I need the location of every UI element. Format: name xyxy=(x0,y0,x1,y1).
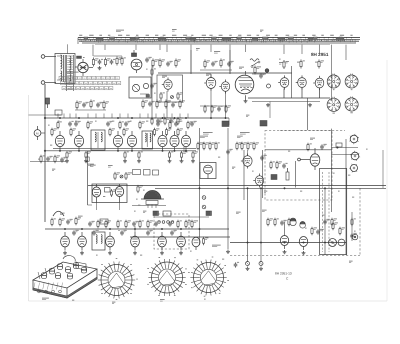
vertical x247 xyxy=(247,195,249,262)
cap V19 xyxy=(320,144,327,149)
tube V3 xyxy=(162,78,172,92)
tube V29 xyxy=(280,236,288,250)
coil hump L2 xyxy=(53,211,64,216)
res cluster bottom right 2 xyxy=(311,227,324,236)
grid resistor V12 xyxy=(109,128,115,137)
output box xyxy=(92,184,127,203)
resistor R10 xyxy=(156,100,162,109)
wire right tubes xyxy=(284,88,320,98)
dashed vertical det1 xyxy=(322,172,324,252)
ground G1 xyxy=(98,66,102,70)
trimmer T204b xyxy=(202,205,206,209)
shield box V16 xyxy=(200,163,216,179)
wire drop x284 xyxy=(284,222,286,236)
res R41 xyxy=(351,218,356,226)
cap right extra xyxy=(350,233,357,238)
wire x307 v19 xyxy=(307,98,309,130)
ground x228 xyxy=(226,250,230,254)
antenna transformer T1 xyxy=(55,54,75,84)
res R30 xyxy=(97,220,103,229)
bus y229 xyxy=(45,228,229,230)
cathode resistor V14 xyxy=(168,151,173,159)
half-dark rotor1 xyxy=(290,218,296,226)
bus y98 xyxy=(248,97,330,99)
socket SK1 xyxy=(327,74,340,90)
component ticks row1 xyxy=(58,114,188,119)
cathode resistor V11 xyxy=(85,151,91,159)
cathode resistor V12 xyxy=(124,151,129,159)
cable dark blocks xyxy=(96,37,344,40)
tube V28 xyxy=(177,232,186,251)
labels bottom row xyxy=(58,229,178,231)
legend row 1 xyxy=(59,76,119,79)
wire terminal A2 to transformer xyxy=(45,82,56,84)
tube V8 xyxy=(296,75,307,89)
wire x295 down xyxy=(295,161,297,188)
cable text labels xyxy=(79,35,352,39)
wire drop x247 xyxy=(247,188,249,195)
labels scatter row2 xyxy=(218,151,302,193)
spider tip labels L4 xyxy=(147,258,187,296)
shield enclosure V3 xyxy=(157,75,183,102)
label V1 xyxy=(77,56,85,59)
magic eye base xyxy=(146,201,158,209)
dark component D2 xyxy=(260,121,267,127)
capacitor C9 xyxy=(211,61,218,66)
IF transformer T3 xyxy=(142,131,153,149)
resistor R3 xyxy=(116,57,122,66)
capacitor C8 xyxy=(166,61,173,66)
labels row1 xyxy=(58,120,182,122)
terminal A2 xyxy=(41,81,45,85)
vertical x87 xyxy=(87,151,89,205)
spider coil L5 xyxy=(190,260,226,296)
wire T1 to V1 xyxy=(75,66,77,68)
wire x135 drop xyxy=(134,226,136,232)
cable harness bus xyxy=(78,38,360,45)
dial lamp box xyxy=(129,77,151,98)
legend row 3 xyxy=(62,87,113,90)
left cluster below bus xyxy=(30,155,94,166)
IF transformer T4 xyxy=(92,232,105,250)
dark component D4 xyxy=(153,211,159,216)
res R40 xyxy=(331,218,337,227)
res V19 xyxy=(307,143,312,152)
tube V25 xyxy=(106,232,115,251)
dashed bottom right xyxy=(230,255,360,257)
tube V7 xyxy=(278,75,289,89)
capacitor C4 xyxy=(82,102,89,107)
ground under V10 xyxy=(65,159,69,163)
tube V2 blob xyxy=(132,50,137,57)
meter M1 xyxy=(34,126,45,140)
vertical bus x45 xyxy=(44,84,46,222)
trimmer TR1 xyxy=(246,262,250,266)
res bottom right of row xyxy=(202,237,208,245)
cathode resistor V10 xyxy=(66,151,72,159)
bus y237 xyxy=(130,236,230,238)
page edge left xyxy=(28,95,30,301)
vertical x261 xyxy=(260,195,262,262)
ground under V15 xyxy=(180,159,184,163)
tube V9 xyxy=(313,76,324,90)
label V3 xyxy=(162,75,167,77)
tube V17 xyxy=(241,154,252,169)
tube V35 xyxy=(352,234,358,240)
dark component D3 xyxy=(271,175,277,180)
wire tube V5 down xyxy=(225,92,227,119)
components left of V7 xyxy=(252,66,266,79)
ground under V23 xyxy=(63,251,67,255)
ground under V12 xyxy=(123,159,127,163)
box B1 xyxy=(55,110,62,115)
resistor R1 xyxy=(92,58,98,67)
cable text below xyxy=(196,49,220,54)
wire tube V4 down xyxy=(210,89,212,119)
cap C30 xyxy=(323,219,330,224)
spider tip labels L5 xyxy=(188,257,229,296)
ground G4 xyxy=(308,103,312,107)
components in dashed box xyxy=(270,161,288,170)
power supply box xyxy=(320,169,347,255)
pot P1 xyxy=(286,168,289,180)
parts right of output box xyxy=(137,185,145,193)
tube V12 xyxy=(113,131,122,151)
ground G5 xyxy=(246,267,250,271)
tube V30 xyxy=(299,237,307,251)
tube V31 xyxy=(329,239,337,247)
wire row y108 xyxy=(75,109,106,111)
legend row 2 xyxy=(61,81,121,84)
bus y185 xyxy=(88,184,386,186)
dark component D1 xyxy=(222,121,229,127)
res cluster mid xyxy=(197,142,259,151)
grid resistor V14 xyxy=(153,128,159,137)
tube V15b xyxy=(181,131,190,151)
cathode resistor V13 xyxy=(138,151,143,159)
resistor R8 xyxy=(103,101,109,110)
dashed vertical right xyxy=(359,188,361,255)
resistor R16 xyxy=(220,59,225,68)
spider coil L3 xyxy=(98,262,135,299)
ground under V28 xyxy=(179,251,183,255)
bus y101 xyxy=(252,101,320,103)
vertical x352 xyxy=(351,212,353,241)
cap row under bus xyxy=(68,121,197,126)
tube V26 xyxy=(131,232,140,251)
junction dot y150 xyxy=(337,147,339,149)
resistor R6 xyxy=(76,101,82,110)
bus y74 xyxy=(158,72,292,74)
cathode resistor V15 xyxy=(180,151,187,159)
cap C31 xyxy=(234,262,239,267)
grid resistor V15 xyxy=(165,128,171,137)
tube V14 xyxy=(158,131,167,151)
tube V34 xyxy=(115,184,123,203)
coil L1 xyxy=(250,59,259,62)
magic eye labels xyxy=(143,210,146,212)
label L5 xyxy=(204,298,206,300)
junction dots bus y242 xyxy=(247,242,326,244)
labels above dark xyxy=(246,114,249,116)
resistor R9 xyxy=(142,100,148,109)
wire y115 left xyxy=(29,114,62,116)
legend text xyxy=(66,71,79,73)
wire x230 h xyxy=(228,118,230,125)
half-dark rotor2 xyxy=(300,221,306,228)
labels left bottom xyxy=(60,213,83,218)
ground G3 xyxy=(266,103,270,107)
vertical x228 xyxy=(227,128,229,249)
cap C20 xyxy=(88,221,95,226)
spider tip labels L3 xyxy=(95,259,138,300)
cathode resistor V15b xyxy=(192,151,198,159)
V3 inner parts xyxy=(160,92,183,100)
ground under V25 xyxy=(108,251,112,255)
bus y242 right xyxy=(230,242,346,244)
bus y118 xyxy=(45,117,229,119)
svg-text:8H 2951: 8H 2951 xyxy=(311,52,329,57)
ground under V15b xyxy=(191,159,195,163)
resistor R12 xyxy=(179,100,185,109)
labels scatter bottom xyxy=(96,251,224,259)
trimmer TR2 xyxy=(259,262,263,266)
resistor R19 xyxy=(318,60,324,69)
wire y205 xyxy=(132,204,166,206)
terminal A1 xyxy=(41,55,45,59)
labels bottom right xyxy=(305,215,356,231)
labels scatter midleft xyxy=(38,125,55,171)
bus y150 xyxy=(45,150,196,152)
tube V10 xyxy=(55,131,64,151)
junction dots x45 xyxy=(44,117,46,152)
wire row1 to row2 xyxy=(183,147,185,151)
label V19 xyxy=(310,137,315,139)
wire upper row xyxy=(94,55,123,57)
electrolytic C11 xyxy=(46,98,50,108)
resistor R5 xyxy=(152,59,159,68)
chassis labels xyxy=(42,298,74,300)
magic eye EM4 xyxy=(141,191,164,200)
small text 035 xyxy=(349,260,353,262)
resistor R4 xyxy=(121,57,126,66)
res R31 xyxy=(105,220,111,229)
capacitor C1 xyxy=(98,59,103,64)
wire V1 anode xyxy=(89,67,93,69)
chassis xyxy=(33,256,97,298)
resistor R15 xyxy=(204,60,210,69)
tube V19 xyxy=(310,148,320,170)
wire V19 left xyxy=(300,159,310,161)
vertical right x383 xyxy=(382,150,384,188)
labels scatter right xyxy=(338,149,368,197)
resistor R11 xyxy=(165,100,171,109)
grid resistor V11 xyxy=(70,128,76,137)
res row under bus xyxy=(57,121,193,130)
res row mid xyxy=(117,220,198,229)
vertical x199 xyxy=(199,128,201,237)
tube V22 xyxy=(349,164,357,173)
cap row mid xyxy=(132,221,173,226)
box B2 xyxy=(100,219,108,224)
trimmer T204a xyxy=(202,196,206,200)
tube V23 xyxy=(61,232,70,251)
vertical x152 xyxy=(151,65,153,120)
socket SK4 xyxy=(345,97,358,113)
vertical x262 xyxy=(262,150,264,198)
terminal N2 xyxy=(298,158,301,161)
capacitor C3 xyxy=(145,57,152,62)
labels IF xyxy=(200,133,250,138)
parts above output box xyxy=(114,172,132,180)
ground under V24 xyxy=(80,251,84,255)
tube V32 xyxy=(338,239,345,246)
small box row 1 xyxy=(133,170,141,175)
res right cluster extra1 xyxy=(332,222,338,231)
small box row 3 xyxy=(153,170,159,175)
small box row 2 xyxy=(144,170,151,176)
res cluster left bottom xyxy=(51,217,81,227)
text B1B2 xyxy=(212,244,221,246)
vertical x191 xyxy=(190,50,192,74)
labels y166 xyxy=(90,165,113,167)
vertical wire x291 xyxy=(291,66,293,98)
wire v17 up xyxy=(247,150,249,156)
res cluster bottom right 1 xyxy=(267,218,293,227)
page edge right xyxy=(386,60,388,301)
label L3 xyxy=(112,301,115,303)
wire drop x261 xyxy=(260,188,262,195)
junction dots bus y150 xyxy=(59,150,187,152)
ground under V27 xyxy=(160,251,164,255)
tube V18 xyxy=(253,174,263,188)
cable stub left xyxy=(77,38,79,44)
ground under V11 xyxy=(84,159,88,163)
tube V36 xyxy=(192,237,200,250)
tube V21 xyxy=(350,151,360,161)
ground under V14 xyxy=(168,159,172,163)
ground G2 xyxy=(244,99,248,103)
label L4 xyxy=(160,299,165,301)
dashed enclosure detector xyxy=(265,131,332,201)
res right cluster extra2 xyxy=(339,227,345,236)
wire y217 xyxy=(154,216,209,218)
tube V13 xyxy=(127,131,136,151)
capacitor C7 xyxy=(171,102,176,107)
cluster under V4 xyxy=(200,105,231,113)
labels tube row right xyxy=(279,62,317,64)
bus y150 right xyxy=(265,149,332,151)
ground under V13 xyxy=(137,159,141,163)
page edge bottom xyxy=(29,300,388,302)
resistor R17 xyxy=(283,60,289,69)
svg-text:8H 2951-13: 8H 2951-13 xyxy=(275,272,292,276)
ground under V26 xyxy=(133,251,137,255)
band drop x67 xyxy=(67,44,69,53)
trimmer row xyxy=(158,221,174,224)
ground G8 xyxy=(302,251,306,255)
vertical x346 xyxy=(345,139,347,255)
switch S1 xyxy=(251,61,260,68)
junction dots bus y118 xyxy=(59,117,226,119)
tube V11 xyxy=(74,131,83,151)
bus y188 xyxy=(155,187,386,189)
wire tube V3 down xyxy=(166,91,168,118)
cable micro ticks xyxy=(80,39,355,42)
label V6 xyxy=(239,66,244,68)
tube V33 xyxy=(92,184,100,203)
grid resistor V10 xyxy=(51,128,57,137)
rect right RC xyxy=(336,143,342,147)
spider coil L4 xyxy=(148,259,185,296)
osc section labels xyxy=(236,210,267,214)
vertical x244 xyxy=(243,150,245,200)
res row y120 xyxy=(151,117,183,125)
wire terminal A1 to transformer xyxy=(45,56,56,58)
wire V4 region xyxy=(200,70,232,78)
cap mid1 xyxy=(226,149,233,154)
output box center parts xyxy=(103,188,116,198)
dashed vertical det2 xyxy=(328,172,330,252)
resistor R7 xyxy=(90,100,95,109)
resistor R2 xyxy=(104,58,110,67)
IF transformer T2 xyxy=(91,130,105,150)
resistor R14 xyxy=(175,59,181,68)
component on x87 xyxy=(86,157,89,161)
vertical x230 xyxy=(229,50,231,74)
tube V20 xyxy=(349,134,359,144)
vertical x325 xyxy=(324,188,326,255)
grid resistor V13 xyxy=(123,128,129,137)
cap mid2 xyxy=(260,155,267,160)
tube V2 xyxy=(131,59,142,73)
bus y147 right xyxy=(332,147,359,149)
tube V24 xyxy=(78,232,87,251)
label R17 xyxy=(279,58,281,60)
wire osc drop x199 xyxy=(199,237,201,245)
ground G6 xyxy=(259,267,263,271)
bus y154 right xyxy=(332,154,359,156)
resistor R13 xyxy=(159,59,165,68)
junction dots bus y229 xyxy=(64,228,200,230)
junctions busline xyxy=(199,188,326,190)
labels right col xyxy=(333,173,350,175)
labels right of output box xyxy=(134,199,140,211)
dashed line top right xyxy=(280,130,345,132)
dashed box bottom xyxy=(154,214,189,249)
small circle N2 xyxy=(267,84,271,88)
tube V15 xyxy=(170,131,179,151)
label V4 xyxy=(206,73,211,75)
title 8H 2951-13 xyxy=(275,272,292,281)
capacitor C2 xyxy=(110,59,115,64)
tube V5 xyxy=(219,80,229,94)
coupling caps bottom xyxy=(72,230,177,235)
tube V4 xyxy=(204,75,216,90)
socket SK3 xyxy=(327,97,340,113)
socket SK2 xyxy=(345,74,358,90)
tube V27 xyxy=(158,232,167,251)
parts on x152 xyxy=(146,68,157,93)
capacitor C6 xyxy=(148,101,155,106)
wire x270 v xyxy=(269,102,271,119)
capacitor C10 xyxy=(227,61,234,66)
resistor R18 xyxy=(300,60,305,69)
grid resistor V15b xyxy=(177,128,183,137)
cable drops xyxy=(93,45,346,100)
bus y148 xyxy=(53,147,196,149)
dark component D5 xyxy=(206,211,212,216)
